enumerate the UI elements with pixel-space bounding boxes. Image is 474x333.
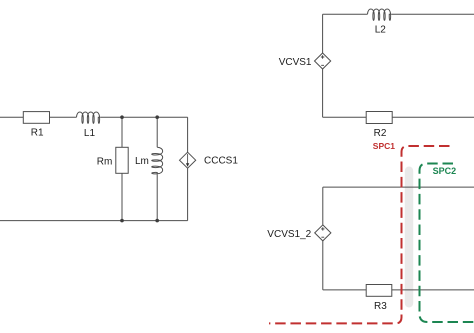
selection highlight band: [405, 167, 413, 308]
inductor L1: [77, 112, 101, 139]
annotation line SPC1: [269, 141, 450, 323]
wire Lm branch: [156, 117, 158, 220]
wire bottom-right loop: [323, 187, 474, 290]
svg-text:R2: R2: [374, 128, 387, 139]
svg-text:CCCS1: CCCS1: [204, 155, 238, 166]
voltage source VCVS1_2: [267, 225, 331, 241]
svg-text:Lm: Lm: [135, 156, 149, 167]
wire top-right loop: [323, 14, 474, 117]
node junction bottom Lm: [155, 219, 159, 223]
voltage source VCVS1: [279, 53, 331, 69]
svg-text:SPC2: SPC2: [433, 166, 457, 176]
resistor R1: [23, 112, 49, 139]
wire left circuit top: [0, 116, 188, 118]
wire Rm branch: [121, 117, 123, 220]
svg-text:VCVS1_2: VCVS1_2: [267, 229, 311, 240]
annotation line SPC2: [420, 164, 474, 323]
node junction top Lm: [155, 115, 159, 119]
node junction bottom Rm: [120, 219, 124, 223]
wire left circuit bottom: [0, 220, 188, 222]
svg-text:L1: L1: [84, 128, 96, 139]
svg-text:SPC1: SPC1: [373, 141, 395, 151]
node junction top Rm: [120, 115, 124, 119]
resistor R2: [366, 112, 392, 140]
wire CCCS1 branch: [187, 117, 189, 220]
inductor L2: [368, 9, 392, 36]
current source CCCS1: [180, 152, 239, 168]
resistor R3: [366, 285, 392, 313]
svg-text:Rm: Rm: [97, 156, 113, 167]
svg-text:R1: R1: [31, 128, 44, 139]
svg-text:R3: R3: [374, 301, 387, 312]
resistor Rm: [97, 147, 128, 173]
inductor Lm: [135, 147, 163, 174]
svg-text:L2: L2: [375, 25, 387, 36]
svg-text:VCVS1: VCVS1: [279, 57, 312, 68]
